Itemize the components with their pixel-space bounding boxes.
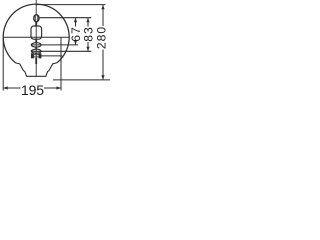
leader line from disc2 (31, 50, 91, 52)
knob (lamp holder) (34, 15, 39, 22)
center axis line (35, 0, 37, 76)
arm line across globe (3, 36, 69, 38)
wing bar middle (33, 55, 39, 57)
extension line right (195) (60, 37, 62, 90)
extension line left (195) (2, 37, 4, 90)
wing bar right end (39, 54, 41, 58)
knob inner detail (36, 16, 38, 21)
disc 2 (31, 49, 41, 53)
leader line from knob (40, 17, 92, 19)
stem knob to canopy (35, 22, 37, 27)
leader line from globe top (36, 4, 105, 6)
mounting surface line (53, 79, 110, 81)
svg-text:195: 195 (21, 82, 44, 98)
wing bar left end (31, 54, 33, 58)
svg-text:83: 83 (81, 26, 95, 42)
arrow 280 top (101, 5, 104, 10)
dim line 195 (3, 87, 61, 89)
arrow 195 right (57, 86, 62, 89)
arrow 83 bottom (86, 47, 89, 52)
arrow 67 top (74, 18, 77, 23)
arrow 67 bottom (74, 40, 77, 45)
svg-text:280: 280 (94, 26, 108, 49)
dim line 83 (87, 18, 89, 52)
arrow 83 top (86, 18, 89, 23)
stem disc2 to wing bar (35, 53, 37, 54)
arrow 195 left (3, 86, 8, 89)
dim line 67 (75, 18, 77, 45)
stem disc1 to disc2 (35, 47, 37, 49)
stem wing bar to crown (35, 58, 37, 64)
disc 1 (31, 43, 41, 47)
dim line 280 (102, 5, 104, 80)
leader line from disc1 (31, 44, 78, 46)
crown mount outline (16, 63, 57, 76)
stem canopy to disc1 (35, 39, 37, 43)
leader line from wing bar (41, 55, 63, 57)
arrow 280 bottom (101, 75, 104, 80)
globe outline (circle, open at bottom where mount sits) (3, 4, 69, 63)
canopy box (31, 26, 42, 39)
